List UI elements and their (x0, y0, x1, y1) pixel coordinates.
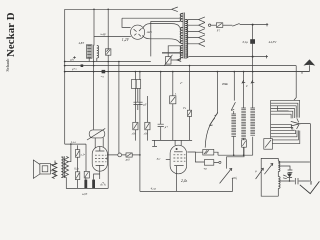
speaker LS magnet (40, 164, 51, 174)
capacitor elko k1 (84, 180, 87, 189)
wire OT feed (67, 144, 71, 162)
wire pot riser (227, 147, 244, 168)
wire choke bottom (89, 58, 97, 62)
svg-text:2º: 2º (180, 82, 182, 85)
wire vertical x93 (93, 58, 95, 129)
node (252, 24, 254, 26)
band coil frame (261, 158, 278, 196)
resistor mains-selector (164, 55, 177, 66)
choke winding B (97, 46, 99, 59)
node OT feed (70, 143, 72, 145)
tube V1 output (92, 146, 107, 171)
coil box top (264, 139, 273, 150)
band coil winding A (278, 158, 280, 176)
wire tube2 to blocks (187, 152, 218, 162)
resistor R-a (133, 122, 138, 130)
wire cathode line (86, 171, 100, 179)
capacitor C-HV (250, 39, 255, 44)
switch arm S3 (209, 113, 217, 126)
wire vertical x140 (139, 72, 141, 192)
wire left PSU vertical (93, 9, 95, 45)
wire HV vertical (252, 25, 254, 72)
node heater (252, 56, 254, 58)
node grid circle (118, 153, 122, 157)
contact marks risers (242, 80, 255, 83)
transformer primary winding G2 (180, 28, 182, 44)
transformer OT secondary (64, 157, 68, 178)
resistor R-g (126, 153, 132, 157)
svg-text:ʌ0ῆ: ʌ0ῆ (232, 176, 237, 180)
wire vertical x217 (215, 72, 218, 116)
bus line 3 (main) (65, 71, 310, 73)
node dots mid (135, 71, 137, 73)
title Neckar D (rotated) (5, 12, 17, 57)
wire filament line 4V (94, 35, 131, 37)
band switch lower fan (271, 124, 300, 143)
diode D1 (287, 174, 292, 178)
resistor field-coil (52, 163, 57, 179)
wire fan left riser (270, 144, 272, 150)
wire coil IF3 ends (252, 72, 254, 156)
svg-text:μa▬: μa▬ (222, 82, 228, 85)
arrow tap selector (172, 7, 178, 12)
svg-text:≈4V: ≈4V (100, 32, 107, 36)
svg-text:μA: μA (71, 58, 74, 61)
wire G1 bottom lead (151, 22, 181, 57)
MAIN-SCHEMATIC (33, 7, 319, 196)
node bus junctions left (64, 61, 66, 63)
wire speaker to field (50, 161, 55, 177)
svg-text:ʌ4,0•: ʌ4,0• (82, 193, 87, 196)
svg-text:F?: F? (216, 29, 221, 33)
wire tube2 top leads (152, 140, 192, 145)
wire detector vertical (309, 124, 311, 181)
trimmer above tube1 (87, 128, 105, 140)
wire trimmer to tube (95, 138, 103, 149)
tube V2 mixer (166, 145, 187, 174)
svg-text:μF: μF (144, 103, 147, 106)
node square left (81, 64, 84, 67)
svg-text:0,1ʌ: 0,1ʌ (74, 167, 79, 170)
wire IF bottom link (218, 152, 253, 155)
svg-text:Neckar D: Neckar D (5, 12, 17, 57)
wire grid to x140 (132, 154, 140, 156)
resistor fuse-block (106, 9, 111, 61)
capacitor output (295, 178, 298, 184)
wire coil IF1 ends (233, 111, 235, 155)
node dots right bus (217, 71, 219, 73)
wire rectifier top loop (122, 18, 180, 27)
fork contact G3 (177, 58, 181, 61)
wire x77 vertical (77, 145, 79, 188)
ground V symbol (300, 181, 320, 194)
wire coilbox tap mid (278, 166, 290, 170)
capacitor C-det (288, 170, 293, 173)
wire IF2 resistor to link (243, 138, 245, 155)
node plus mark (73, 56, 76, 59)
node IF bottom (233, 154, 235, 156)
capacitor coupling mid (133, 88, 142, 110)
choke box (86, 45, 92, 58)
bus line 2 (65, 65, 297, 67)
coil IF1 (231, 114, 236, 136)
resistor block B right of tube2 (204, 160, 213, 166)
wire rectifier anode leads (142, 24, 180, 44)
coil IF3 (250, 108, 255, 135)
arrow core A (264, 163, 272, 174)
speaker LS inner (42, 166, 48, 172)
node dots buses (93, 61, 95, 63)
wire to right (240, 23, 269, 26)
wire heater lead (187, 55, 269, 58)
svg-text:Schaub: Schaub (5, 58, 10, 72)
wire vertical x190 (189, 66, 191, 141)
fuse F1 (216, 23, 222, 28)
transformer OT core (63, 156, 64, 178)
wire OT bottom (66, 178, 77, 189)
wire coil IF2 top (243, 72, 245, 108)
wire feeder corner (65, 144, 86, 171)
svg-text:μ+≈: μ+≈ (72, 68, 77, 71)
wire vertical x147 (146, 96, 148, 141)
rectifier tube U3 (131, 25, 145, 39)
transformer primary winding G1 (180, 14, 182, 22)
band switch upper fan (271, 100, 300, 143)
svg-text:ʌ7ʌ: ʌ7ʌ (100, 183, 106, 187)
wire mains top feed (65, 8, 172, 10)
svg-text:A21: A21 (146, 30, 153, 34)
resistor block A right of tube2 (203, 149, 214, 155)
node top junctions (93, 9, 95, 11)
wire to fuse (211, 24, 217, 26)
transformer primary winding G3 (180, 46, 182, 58)
coil IF2 (241, 108, 246, 138)
resistor small x190 (187, 110, 191, 116)
wire x217 lower (205, 118, 215, 148)
capacitor on bus (102, 70, 106, 73)
node det (289, 180, 291, 182)
switch S2 (232, 23, 239, 26)
bus line 1 (65, 61, 151, 63)
wire grid line (107, 154, 126, 156)
wire vertical x107 (107, 62, 109, 189)
wire vertical x135 (134, 72, 136, 141)
antenna symbol (303, 59, 315, 65)
resistor R-b (145, 122, 150, 130)
wire tube2 cathode (176, 174, 178, 192)
wire coilbox link top (278, 161, 310, 163)
capacitor elko k2 (92, 180, 95, 189)
capacitor C-k2 (75, 172, 79, 180)
wire vertical x173 (172, 72, 174, 141)
choke winding A (87, 46, 91, 58)
label 220V smudge (162, 52, 183, 54)
wire G3 leads to switch (168, 46, 180, 60)
resistor R-k (84, 171, 89, 178)
potentiometer arrow (220, 168, 233, 184)
wire bottom bus (140, 190, 233, 192)
wire vertical x234 (233, 72, 235, 101)
capacitor C-k1 (75, 150, 79, 158)
speaker LS cone (33, 160, 40, 178)
wire x155 stub (152, 140, 157, 146)
wire bus2 drop right (294, 66, 296, 101)
wire detector bottom line (278, 180, 310, 182)
node x140 grid (139, 154, 141, 156)
switch wiper cross (291, 118, 311, 129)
svg-text:μ+: μ+ (165, 126, 168, 129)
transformer secondary winding (185, 20, 188, 59)
wire left feeder vertical (64, 9, 66, 144)
choke core (93, 45, 95, 59)
switch contact S4 (231, 102, 235, 110)
transformer T1 core (183, 13, 185, 59)
wire fuse to switch (223, 24, 233, 26)
wire vertical x119 (118, 62, 120, 154)
wire pot to bus (232, 184, 234, 191)
band coil winding B (278, 177, 280, 197)
svg-text:3ʌº: 3ʌº (157, 157, 161, 161)
title Schaub (rotated) (5, 58, 10, 72)
wire cathode bracket (78, 187, 109, 189)
resistor pair top (131, 80, 140, 89)
wire fan inner box (278, 106, 289, 111)
resistor osc grid (170, 96, 176, 104)
resistor R-osc (242, 140, 247, 147)
diode bar (283, 175, 292, 181)
transformer OT primary (61, 157, 63, 178)
secondary tap forks (188, 17, 205, 47)
node mains contact (208, 24, 210, 26)
capacitor grid2 (158, 72, 164, 141)
antenna stem (302, 65, 309, 73)
arrow core B (256, 168, 264, 179)
svg-text:ʌ,1•: ʌ,1• (81, 154, 85, 157)
